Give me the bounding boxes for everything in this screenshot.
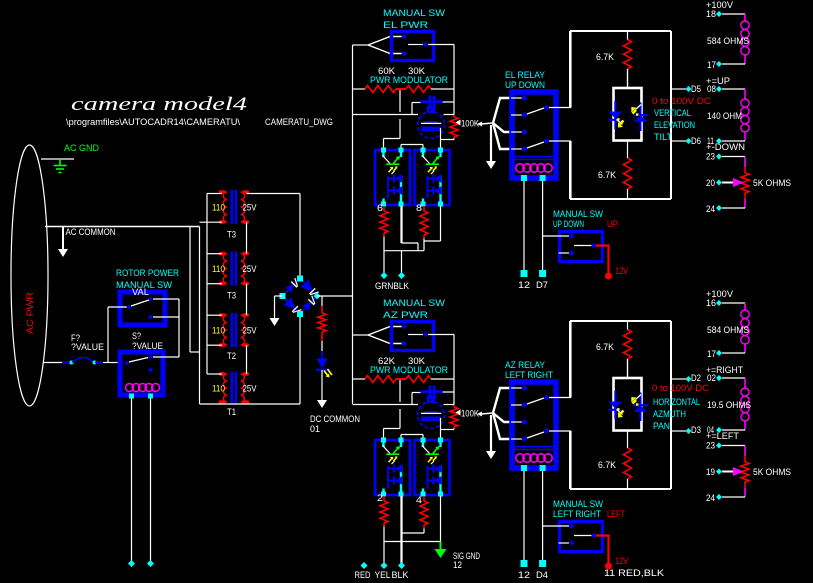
wire dropper top lead [321,296,323,306]
wire S2 down lead left [131,398,133,561]
svg-text:2: 2 [377,493,383,503]
wire opto link [400,435,402,441]
tube VEL cathode lead [431,109,433,114]
wire relay contact stub 1 [511,97,522,99]
wire relay fan upper [493,388,511,413]
SCR right anode line [640,103,642,132]
switch S2 box [120,352,163,395]
diode bridge D-topleft [286,284,294,292]
wire relay fan upper [493,98,511,123]
svg-text:25V: 25V [243,326,257,336]
wire D6 to coil [722,140,745,142]
svg-text:ELEVATION: ELEVATION [654,120,695,130]
svg-text:D3: D3 [691,425,701,435]
wire EL sw out [428,44,454,46]
LED DC indicator [317,359,328,369]
wire EL grn lead [383,237,385,274]
wire AZ blk lead [400,496,402,563]
wire 6.7K upper leads [627,321,629,330]
node motor out lower [686,138,692,144]
contact sw throw low [569,250,575,256]
svg-text:24: 24 [706,204,715,214]
wire modulator right lead [431,378,454,380]
wire rail bus left [353,114,419,116]
wire secondary chain 2 [246,284,248,316]
motor box AZ left lower [569,431,571,489]
pot 5K EL resistor [741,173,749,193]
wire relay fan mid [493,413,511,422]
arrow 100K wiper [456,120,461,126]
resistor AZ opto2 [420,501,428,525]
tube VEL envelope [418,112,445,139]
relay KAZ box [512,382,556,468]
svg-text:?VALUE: ?VALUE [71,342,104,352]
contact relay right upper [544,395,550,401]
wire drive vertical [399,90,401,112]
wire wiper EL [722,182,733,184]
wire 6.7K lower leads [627,431,629,449]
wire AZ opto2 res leads [423,496,425,501]
ground AC GND symbol [54,159,67,173]
wire S1 lower throw out [153,316,179,318]
svg-text:+-DOWN: +-DOWN [706,142,745,152]
switch EL sw blade [408,44,423,46]
optocoupler U1 EL [375,150,410,205]
wire AZ cross bus [384,541,441,543]
node pin 18 [716,11,722,17]
svg-text:6: 6 [377,203,383,213]
motor box AZ right [670,321,672,489]
coil mid AZ leads [744,378,746,388]
wire AZ fork upper [368,327,402,336]
node motor out upper [686,86,692,92]
svg-text:LEFT: LEFT [607,509,625,519]
coil 584 OHMS AZ leads [744,303,746,310]
node relay lead end 2 [539,270,546,277]
node bridge bottom [297,311,303,317]
svg-text:UP DOWN: UP DOWN [505,80,545,90]
wire relay contact stub 4 [511,148,522,150]
arrow DC COMMON [317,400,327,408]
contact sw throw low [569,540,575,546]
SCR right gate tick [636,105,642,110]
node pin 19 [716,469,722,475]
wire tube output [440,418,442,440]
wire pin 23 EL [722,156,745,158]
node pin 24 AZ [716,494,722,500]
wire fuse lead blue segment right [95,362,103,364]
svg-text:17: 17 [707,349,716,359]
wire sw throw low lead [559,252,570,254]
node bridge left [280,293,286,299]
node AZ blk terminal [398,562,405,569]
svg-text:4: 4 [416,495,422,505]
node AZ yel terminal [381,562,388,569]
svg-text:12V: 12V [615,556,628,566]
wire cap row right [443,101,455,103]
transformer T3a [231,190,234,224]
svg-text:CAMERATU_DWG: CAMERATU_DWG [265,117,333,127]
svg-text:UP DOWN: UP DOWN [553,219,584,229]
svg-text:T1: T1 [227,407,236,417]
svg-text:8: 8 [416,203,422,213]
coil 19.5 OHMS AZ [741,388,749,396]
motor box EL top [570,30,671,32]
switch blade manual [574,245,592,247]
SCR left anode line [614,391,616,419]
wire EL opto2 right lead [440,206,442,241]
svg-text:DC COMMON: DC COMMON [310,414,360,424]
svg-text:0 to 100V DC: 0 to 100V DC [652,96,712,106]
transformer T1 [231,372,234,404]
wire primary bus [206,194,208,375]
svg-text:T2: T2 [227,351,236,361]
wire AZ fork lower [368,335,402,344]
wire motor out upper [671,88,686,90]
diode bridge D-bottomleft [283,297,295,309]
resistor 100K EL [450,117,458,137]
tube VAZ cathode triangle [428,396,436,402]
motor box EL bottom [570,198,671,200]
resistor 6.7K upper EL [624,40,632,70]
wire EL fork lower [368,45,402,54]
wire main rail [352,45,354,404]
svg-text:EL RELAY: EL RELAY [505,70,545,80]
wire motor out lower [671,430,686,432]
node coupler D2 [716,375,722,381]
node relay lead end 2 [539,560,546,567]
wire left rail (AC common to T1 bottom) [199,227,201,405]
tube VAZ grid bar [424,411,438,413]
wire pin 18 to coil [722,13,745,15]
contact sw throw up [569,523,575,529]
svg-text:02: 02 [707,373,716,383]
optocoupler U1 AZ [375,440,410,495]
wire rail bus right [444,404,455,406]
wire EL blk lead upper [400,206,402,243]
resistor 60K PWR modulator [365,86,396,93]
svg-text:100K: 100K [461,409,479,419]
SCR right triangle [634,406,648,412]
svg-text:S?: S? [132,331,141,341]
resistor 6.7K lower EL [624,158,632,189]
node S2 bottom terminal right [148,394,153,399]
wire relay contact stub 2 [511,404,522,406]
wire fuse lead right [103,362,118,364]
motor EL inner box [614,88,642,141]
wire pin 23 AZ [722,445,745,447]
svg-text:MANUAL SW: MANUAL SW [553,499,603,509]
svg-text:camera model4: camera model4 [71,95,247,115]
wire secondary chain 3 [246,345,248,374]
svg-text:584 OHMS: 584 OHMS [707,36,749,46]
contact relay right upper [544,105,550,111]
contact relay left 4 [522,146,528,152]
svg-text:20: 20 [706,178,715,188]
ground SIG GND arrow [440,542,442,550]
wire relay contact stub 2 [511,114,522,116]
LED arrow yellow [324,371,329,377]
wire EL cross bus [384,250,424,252]
wire EL blk lead lower [401,251,403,273]
contact sw common [591,533,597,539]
capacitor CAZ lead bar [421,390,443,393]
wire rail bus left [353,404,419,406]
svg-text:110: 110 [212,264,225,274]
arrow 100K wiper [456,410,461,416]
capacitor CEL plates [429,96,432,109]
svg-text:25V: 25V [243,384,257,394]
SCR left anode line [614,101,616,129]
wire modulator right lead [431,88,454,90]
svg-text:AC GND: AC GND [64,143,99,153]
svg-text:\programfiles\AUTOCADR14\CAMER: \programfiles\AUTOCADR14\CAMERATU\ [66,117,240,127]
wire AZ opto1 res leads [383,496,385,501]
diode bridge D-bottomright [303,302,311,311]
svg-text:T3: T3 [227,291,236,301]
SCR left gate tick [617,120,623,125]
tube VAZ cathode bars [427,396,429,403]
node pin 17 AZ [716,350,722,356]
wire bridge right to rail [317,295,353,297]
wire AZ sw out [428,334,454,336]
wire primary stub t1 top [207,193,222,195]
relay coil bar [512,446,556,448]
arrow relay common [486,161,496,169]
wire relay coil lead 1 [523,471,525,561]
contact relay left 2 [522,402,528,408]
svg-text:12: 12 [518,280,530,290]
svg-text:D4: D4 [536,570,548,580]
wire relay coil lead 1 [523,181,525,271]
svg-text:D7: D7 [536,280,548,290]
node relay coil term 2 [540,465,546,471]
wire 12V feed [596,246,609,275]
svg-text:19: 19 [706,467,715,477]
wire bracket vertical [178,299,180,357]
pot 5K AZ bottom lead [744,482,746,488]
wire cap row left [412,392,421,394]
wire relay coil lead 2 [542,471,544,561]
wire cap row right [443,391,455,393]
SCR right gate arrow yellow [633,400,637,404]
wire EL opto1 res leads [383,206,385,211]
svg-text:UP: UP [607,219,618,229]
svg-text:110: 110 [212,384,225,394]
wire EL opto2 res to bus [423,239,425,251]
node motor out upper [686,376,692,382]
svg-text:23: 23 [706,152,715,162]
wire tube output to pot [441,429,455,431]
wire EL fork upper [368,37,402,46]
wire secondary chain 1 [246,222,248,254]
bridge rectifier outline [283,279,318,315]
contact relay left 2 [522,112,528,118]
relay coil bar [512,156,556,158]
wire tube output [440,128,442,150]
fuse F1 arc [72,358,94,363]
coil 140 OHM EL [741,99,749,107]
svg-text:PAN: PAN [653,421,670,431]
switch S1 blade [131,300,149,306]
svg-text:MANUAL SW: MANUAL SW [383,298,446,308]
resistor 6.7K lower AZ [624,448,632,479]
contact S1 throw upper [148,297,153,302]
wire relay contact stub 1 [511,387,522,389]
svg-text:5K OHMS: 5K OHMS [753,178,791,188]
motor box AZ top [570,320,671,322]
wire bridge left stub [275,295,283,297]
wire S1 pole lead [108,306,127,308]
wire bridge bottom riser [299,314,301,404]
SCR right gate arrow yellow [633,110,637,114]
node AZ red terminal [361,562,368,569]
wire primary stub t2 top [207,253,222,255]
svg-text:5K OHMS: 5K OHMS [753,467,791,477]
node relay coil term 2 [540,175,546,181]
wire tube output to pot [441,139,455,141]
node relay lead end 1 [521,270,528,277]
svg-text:LEFT RIGHT: LEFT RIGHT [553,509,601,519]
relay blade upper [527,398,544,404]
svg-text:6.7K: 6.7K [598,170,616,180]
wire AZ fork stem [353,334,369,336]
svg-text:ROTOR POWER: ROTOR POWER [116,268,179,278]
arrow wiper AZ [733,467,744,476]
svg-text:11 RED,BLK: 11 RED,BLK [604,568,664,578]
wire inner box top lead [627,359,629,378]
pot 5K AZ resistor [741,462,749,482]
node fuse terminal right [93,361,97,365]
AC power source ellipse [11,145,48,406]
wire relay contact stub 3 [511,131,522,133]
resistor AZ opto1 [380,501,388,523]
wire inner box top lead [627,69,629,88]
contact sw common [591,243,597,249]
svg-text:+=LEFT: +=LEFT [706,431,740,441]
wire drive jog [384,138,401,140]
node EL blk terminal [398,272,405,279]
node S2 cable end left [128,560,135,567]
tube VAZ cathode lead [431,399,433,404]
tube VAZ envelope [418,402,445,429]
wire D3 to coil [722,429,745,431]
wire relay out lower [549,140,571,142]
relay KEL box [512,92,556,178]
wire AC COMMON bus [45,226,200,228]
motor AZ inner box [614,378,642,431]
pot 5K EL top lead [744,157,746,168]
contact sw throw up [569,233,575,239]
svg-text:AZ RELAY: AZ RELAY [505,360,545,370]
svg-text:23: 23 [706,441,715,451]
contact S2 throw lower [148,368,153,373]
motor box EL right [670,31,672,199]
optocoupler U2 EL [415,150,450,205]
node S2 bottom terminal left [129,394,134,399]
wire relay coil lead 2 [542,181,544,271]
svg-text:AZ PWR: AZ PWR [383,310,429,320]
node pin 24 EL [716,205,722,211]
contact AZ sw throw upper [401,324,407,330]
resistor EL opto1 [380,211,388,233]
SCR left gate tick [617,410,623,415]
coil mid EL leads [744,89,746,99]
svg-text:12V: 12V [615,266,628,276]
motor box EL left upper [569,31,571,108]
contact relay right lower [544,428,550,434]
node S2 cable end right [147,560,154,567]
wire relay drive arrow [477,122,482,127]
node coupler D6 [716,138,722,144]
node 12V terminal [605,563,612,570]
wire D5 to coil [722,88,745,90]
wire fuse lead blue segment left [62,362,70,364]
svg-text:18: 18 [706,9,716,19]
wire relay out upper [549,107,571,109]
contact S2 throw upper [148,355,153,360]
node motor out lower [686,428,692,434]
wire relay drive arrow [477,412,482,417]
wire S1 upper throw out [153,298,179,300]
svg-text:D5: D5 [691,84,701,94]
contact relay left 3 [522,129,528,135]
node relay coil term 1 [521,465,527,471]
wire sw branch [543,525,569,527]
node relay lead end 1 [521,560,528,567]
switch blade manual [574,535,592,537]
wire 6.7K upper leads [627,31,629,40]
wire pin 17 AZ [722,352,745,354]
svg-text:140 OHM: 140 OHM [707,111,742,121]
svg-text:12: 12 [453,560,462,570]
wire S2 upper throw out [153,356,179,358]
svg-text:01: 01 [310,424,320,434]
svg-text:16: 16 [706,298,716,308]
node pin 20 [716,180,722,186]
svg-text:584 OHMS: 584 OHMS [707,325,749,335]
motor box AZ bottom [570,488,671,490]
wire relay out upper [549,397,571,399]
wire relay fan lower [493,413,511,439]
wire modulator left lead [353,378,366,380]
optocoupler U2 AZ [415,440,450,495]
node pin 23 EL [716,154,722,160]
contact relay right lower [544,138,550,144]
wire motor out lower [671,140,686,142]
resistor 30K PWR modulator [406,86,431,93]
arrow relay common [486,451,496,459]
resistor 100K AZ [450,407,458,427]
pot 5K EL bottom lead [744,193,746,199]
svg-text:YEL: YEL [375,570,391,580]
contact AZ sw common [423,332,429,338]
wire EL fork stem [353,44,369,46]
transformer T2 [231,313,234,347]
node bridge right [314,293,321,300]
transformer T3b [231,252,234,286]
capacitor CAZ plates [429,386,432,399]
wire modulator left lead [353,88,366,90]
wire AZ jog [402,532,425,534]
wire 100K top lead [453,115,455,118]
node fuse terminal left [70,361,74,365]
svg-text:AC PWR: AC PWR [25,291,35,334]
switch AZ sw blade [408,334,423,336]
tube VAZ plate [421,417,441,421]
wire relay contact stub 3 [511,421,522,423]
wire drive jog [384,428,401,430]
